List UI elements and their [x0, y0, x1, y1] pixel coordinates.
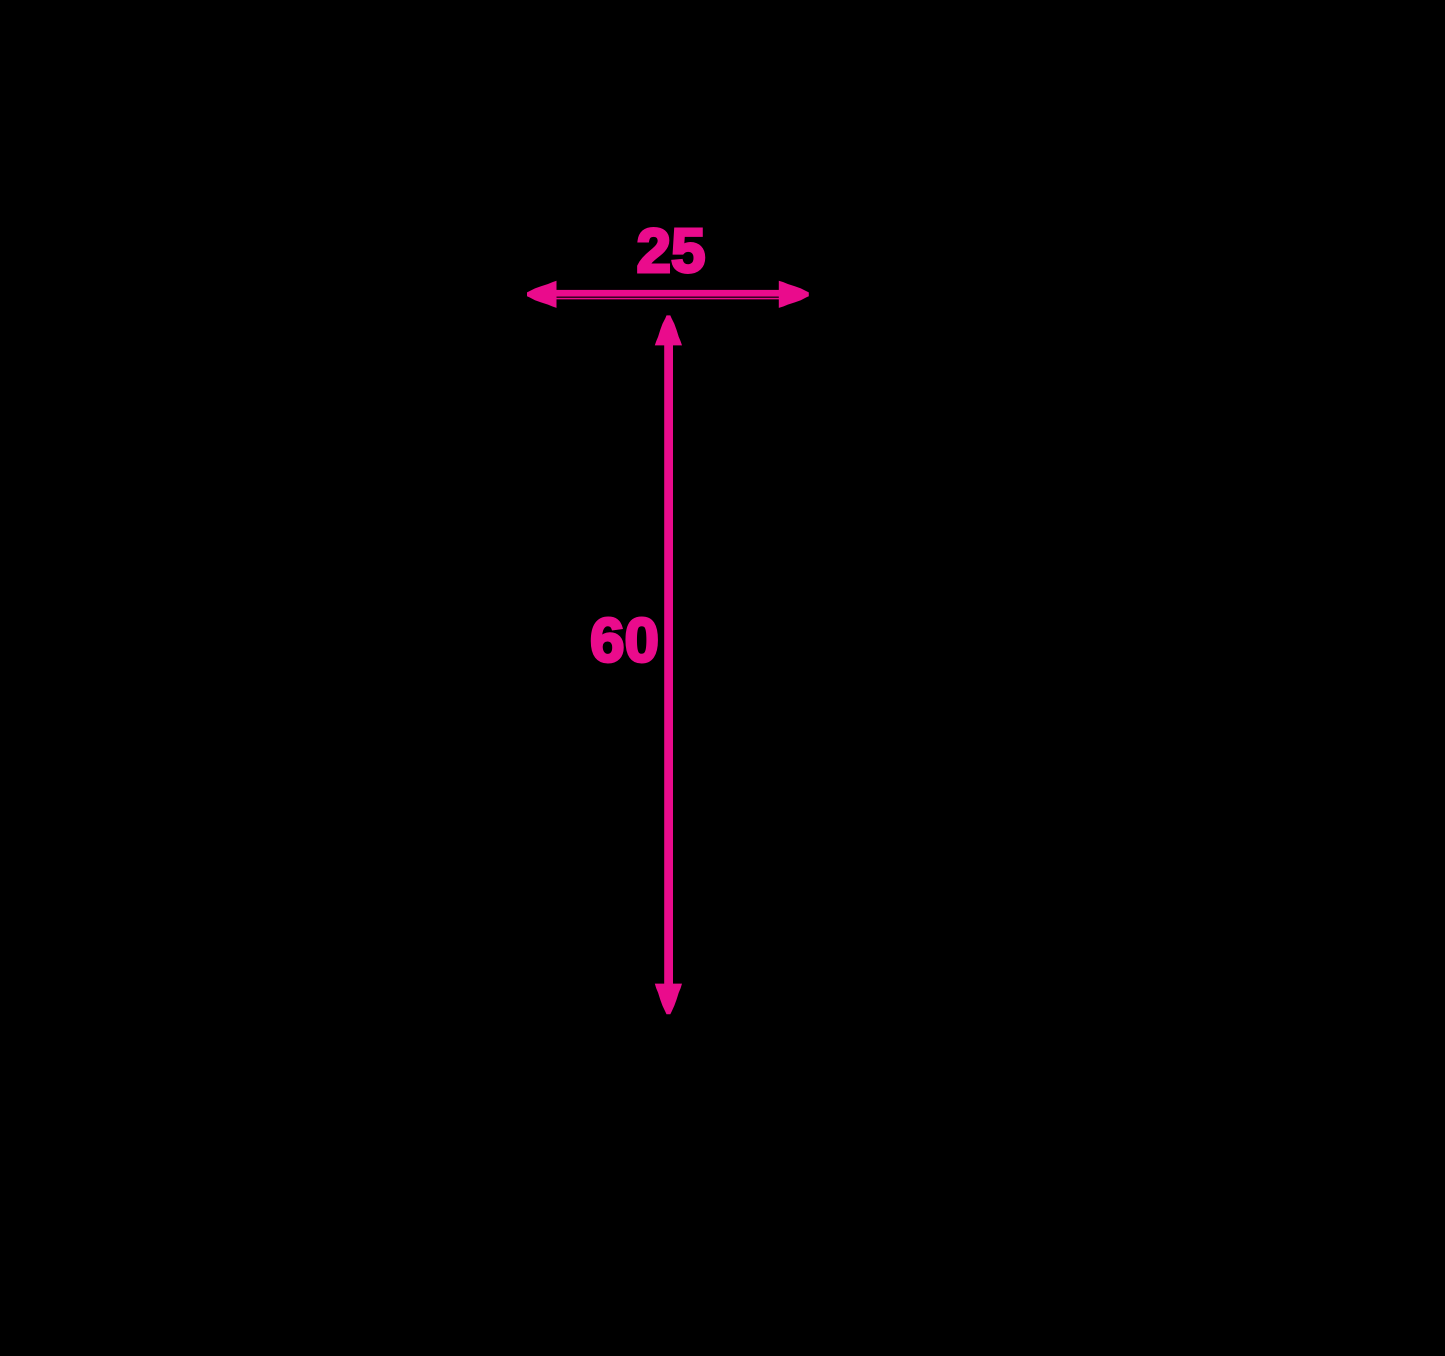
svg-text:25: 25	[637, 217, 706, 286]
svg-text:60: 60	[590, 607, 659, 676]
